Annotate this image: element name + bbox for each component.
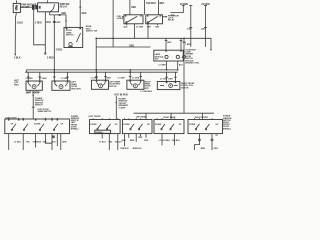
- wire lamp module drop 2: [177, 61, 179, 70]
- svg-text:ORANGE: ORANGE: [33, 140, 42, 143]
- wire drop to right rear switch: [170, 113, 172, 119]
- wire RR drop 2: [161, 134, 163, 146]
- wire master switch feed: [32, 94, 35, 119]
- wire K1 to junction: [134, 24, 136, 39]
- svg-text:LT GRN: LT GRN: [159, 65, 167, 67]
- wire motor E pin2: [174, 72, 177, 81]
- relay K2: [146, 15, 163, 24]
- svg-text:1 BRN: 1 BRN: [185, 44, 191, 46]
- svg-text:C282: C282: [187, 28, 192, 30]
- wire motor E pin1: [165, 72, 168, 81]
- svg-text:MOTOR: MOTOR: [181, 87, 189, 89]
- svg-text:(PANEL): (PANEL): [71, 128, 79, 131]
- svg-text:RED: RED: [61, 13, 66, 15]
- svg-text:LT BLU: LT BLU: [14, 141, 21, 143]
- switch SW4 right rear box: [154, 120, 184, 134]
- wire relay top stub: [47, 0, 49, 2]
- wire relay pin drop: [44, 12, 46, 55]
- label right of motor D: [145, 81, 152, 90]
- svg-text:JAMB SWITCH: JAMB SWITCH: [37, 110, 51, 113]
- wire mid lower red line: [96, 46, 150, 48]
- svg-text:BLK: BLK: [46, 22, 51, 24]
- switch SW2 left front box: [90, 120, 121, 134]
- wire W6 vertical to bus: [53, 15, 61, 72]
- wire drop to right front switch: [202, 113, 204, 119]
- svg-text:C283: C283: [201, 28, 206, 30]
- motor M3 left rear window motor: [92, 80, 109, 89]
- wire LR drop 4: [139, 134, 141, 137]
- svg-text:LEFT REAR: LEFT REAR: [136, 116, 147, 119]
- relay K1: [122, 15, 143, 24]
- wire K2 drop: [147, 24, 149, 39]
- svg-text:17 BLU: 17 BLU: [99, 141, 106, 143]
- svg-text:BLK: BLK: [179, 65, 184, 67]
- label circuit breaker stack: [118, 99, 128, 110]
- svg-text:SAFETY SW: SAFETY SW: [86, 30, 97, 33]
- wire LF drop long: [60, 134, 62, 150]
- svg-text:WDO MTR: WDO MTR: [71, 88, 81, 90]
- wire branch circuit 1: [189, 6, 192, 47]
- svg-text:MOTOR: MOTOR: [109, 86, 117, 88]
- wire RF drop 2: [211, 134, 214, 150]
- label rear window safety switch: [86, 25, 97, 32]
- svg-text:48A: 48A: [43, 140, 47, 143]
- fusible link F1: [32, 5, 38, 10]
- svg-text:BRN: BRN: [201, 148, 206, 150]
- svg-text:DOWN: DOWN: [90, 124, 97, 126]
- svg-text:20 ORN: 20 ORN: [202, 4, 211, 6]
- label left of motor A: [14, 80, 20, 86]
- switch S1 door jamb switch: [64, 27, 83, 47]
- svg-text:SWITCH: SWITCH: [66, 35, 74, 37]
- wire K2 pin stub: [157, 24, 159, 26]
- wire motor B pin2: [66, 72, 69, 81]
- wire LF pin stub 3: [117, 134, 119, 150]
- wire LR drop 1: [124, 134, 126, 147]
- wire LF pin stub 1: [101, 134, 103, 139]
- motor M5 right front door lock motor: [157, 82, 180, 90]
- wire L stub top right: [171, 6, 185, 13]
- node bus2 dots: [54, 71, 132, 73]
- svg-text:DOWN: DOWN: [34, 124, 41, 126]
- svg-text:L7 GRN: L7 GRN: [39, 78, 47, 80]
- wire LF pin stub 2: [108, 134, 110, 150]
- node connector blob: [52, 136, 55, 139]
- label connector C281: [117, 16, 124, 20]
- node bus1 dots: [54, 69, 179, 71]
- wire mid upper line: [96, 37, 211, 39]
- wire V1b feed: [112, 0, 114, 47]
- node RF pin mark: [215, 134, 217, 135]
- wire lamp module feed 2: [180, 38, 183, 50]
- svg-text:LEFT DOOR: LEFT DOOR: [26, 92, 39, 94]
- wire right feed down long: [183, 38, 186, 114]
- svg-text:WHT: WHT: [159, 3, 165, 5]
- wire V4: [157, 0, 159, 15]
- wire V2 feed relay K1: [129, 0, 131, 15]
- svg-text:BRN: BRN: [130, 140, 135, 142]
- svg-text:RED: RED: [171, 15, 176, 17]
- wire RR drop 1: [145, 134, 147, 138]
- circuit breaker CB1: [13, 3, 20, 12]
- svg-text:SWITCH: SWITCH: [35, 105, 43, 107]
- svg-text:DOWN: DOWN: [155, 124, 162, 126]
- svg-text:L7 GRN BLK: L7 GRN BLK: [140, 91, 152, 93]
- wire LR drop 3: [135, 134, 137, 142]
- svg-text:14 RED: 14 RED: [117, 17, 124, 20]
- wire K1 pin stub: [126, 24, 128, 26]
- wire master drop 4 jog: [45, 134, 52, 144]
- wire motor A pin1: [27, 72, 30, 81]
- svg-text:2 RED: 2 RED: [47, 57, 54, 59]
- wire V1 main red feed: [79, 0, 81, 27]
- module M6 courtesy lamp module: [154, 50, 183, 61]
- svg-text:RED: RED: [131, 7, 136, 9]
- motor M2 left rear door window motor: [52, 81, 70, 90]
- wire V3 feed relay K2: [144, 0, 146, 15]
- svg-text:DOWN: DOWN: [189, 124, 196, 126]
- svg-text:YEL BLK: YEL BLK: [172, 140, 181, 142]
- svg-text:GRN: GRN: [168, 78, 173, 80]
- wire right end down arrow: [210, 38, 212, 51]
- svg-text:BLK: BLK: [138, 137, 143, 139]
- label left door jamb: [37, 109, 51, 113]
- svg-text:RIGHT FRONT: RIGHT FRONT: [195, 117, 209, 119]
- wire master drop 2: [22, 134, 24, 150]
- wire arrow to lock relay label: [163, 16, 168, 18]
- svg-text:GRN: GRN: [106, 78, 111, 80]
- svg-text:DOWN: DOWN: [123, 124, 130, 126]
- svg-text:MTR: MTR: [145, 88, 150, 90]
- svg-text:LEFT FRONT: LEFT FRONT: [89, 116, 102, 118]
- wire LR drop 2: [128, 134, 130, 138]
- svg-text:2 RED: 2 RED: [56, 50, 63, 52]
- svg-text:(PANEL): (PANEL): [96, 131, 104, 134]
- svg-text:TAN: TAN: [155, 25, 159, 28]
- svg-text:RELAY: RELAY: [168, 19, 175, 22]
- wire lamp module drop 1: [166, 61, 168, 70]
- switch SW3 left rear box: [123, 120, 153, 134]
- svg-text:L7 GRN: L7 GRN: [132, 78, 140, 80]
- wire branch circuit 2: [204, 6, 207, 47]
- wire pin stubs bottom boxes: [93, 118, 212, 119]
- svg-text:10 AMP: 10 AMP: [118, 106, 126, 109]
- label master switch stack: [35, 98, 44, 107]
- wire junction vertical to bus: [95, 38, 97, 72]
- wire bottom feeder line: [134, 112, 215, 114]
- wire master drop 1: [8, 134, 10, 150]
- label power door lock relay: [168, 16, 179, 22]
- label circuit breaker: [21, 5, 37, 9]
- wire motor D pin1: [129, 72, 132, 80]
- wire bus2: [25, 71, 178, 73]
- motor M1 left quarter window motor: [26, 81, 42, 90]
- svg-text:LT GRN: LT GRN: [136, 26, 144, 28]
- svg-text:L7 GRN: L7 GRN: [91, 78, 99, 80]
- label stack right edge: [223, 116, 232, 131]
- svg-text:L7 GRN: L7 GRN: [160, 78, 168, 80]
- svg-text:BRN BLK: BRN BLK: [133, 148, 142, 150]
- svg-text:L7 GRN: L7 GRN: [25, 78, 33, 80]
- svg-text:ORN: ORN: [213, 148, 218, 150]
- label right of motor C: [109, 80, 121, 87]
- wire motor C pin1: [95, 72, 98, 80]
- wire motor D pin2: [139, 72, 142, 80]
- wire master drop 5: [51, 134, 53, 150]
- motor M4 right rear window motor: [127, 80, 144, 89]
- wire W8 relay output jog: [50, 12, 67, 28]
- svg-text:1 BLK: 1 BLK: [17, 23, 24, 25]
- wire CB1 top stub: [15, 0, 17, 3]
- switch SW1 master switch box: [5, 119, 70, 134]
- wire motor A pin2: [39, 72, 42, 81]
- svg-text:SW: SW: [155, 59, 158, 61]
- wire master drop 6: [56, 134, 58, 146]
- wire motor B pin1: [53, 72, 56, 81]
- label stack between master and LF: [71, 116, 80, 131]
- svg-text:RIGHT REAR: RIGHT REAR: [163, 116, 176, 119]
- relay U1 power window relay: [38, 3, 59, 12]
- svg-text:WDO: WDO: [14, 84, 19, 86]
- wire master drop 3: [35, 134, 37, 148]
- label right of motor B: [71, 82, 81, 91]
- svg-text:LT BLU BLK: LT BLU BLK: [159, 140, 171, 142]
- svg-text:GRY: GRY: [147, 26, 152, 28]
- svg-text:TAN WHT: TAN WHT: [146, 2, 157, 5]
- svg-text:2 RED: 2 RED: [35, 23, 42, 25]
- wire left front feed: [116, 96, 118, 119]
- svg-text:RED: RED: [82, 13, 87, 15]
- svg-text:TAN BLK: TAN BLK: [120, 147, 129, 150]
- svg-text:(PANEL): (PANEL): [223, 127, 231, 130]
- wire bus1: [27, 70, 178, 72]
- svg-text:L7 GRN: L7 GRN: [61, 78, 69, 80]
- label right of motor E: [181, 83, 195, 89]
- svg-text:TAN: TAN: [122, 139, 126, 142]
- svg-text:RED: RED: [129, 45, 134, 47]
- wire motor C pin2: [104, 72, 107, 80]
- svg-text:GRN: GRN: [62, 141, 67, 143]
- label courtesy lamp stack: [185, 49, 199, 64]
- svg-text:BLK: BLK: [124, 26, 129, 28]
- label relay: [60, 4, 70, 8]
- node dot V1b: [112, 38, 114, 40]
- wire RF drop jog: [195, 134, 201, 150]
- svg-text:5 BLK: 5 BLK: [14, 58, 21, 60]
- wire pin stubs master box: [9, 118, 58, 119]
- wire W1 left feed down: [14, 13, 16, 57]
- wire lamp module feed 1: [165, 38, 168, 50]
- svg-text:L7 GRN: L7 GRN: [117, 78, 125, 80]
- svg-text:ORG: ORG: [144, 140, 149, 142]
- wire CB1 to fusible link: [20, 6, 32, 8]
- wire RR drop 3: [174, 134, 176, 146]
- wire W5 jog: [34, 10, 46, 45]
- wire fusible link to relay: [37, 6, 39, 8]
- svg-text:RELAY: RELAY: [60, 6, 68, 9]
- svg-text:BLK: BLK: [52, 141, 57, 143]
- wire drop to left rear switch: [145, 113, 147, 119]
- node junction mid: [95, 38, 97, 40]
- svg-text:RED: RED: [56, 22, 61, 24]
- switch SW5 right front box: [188, 120, 223, 134]
- svg-text:(STEREO SYS): (STEREO SYS): [185, 63, 199, 65]
- wire bus tie: [129, 70, 131, 72]
